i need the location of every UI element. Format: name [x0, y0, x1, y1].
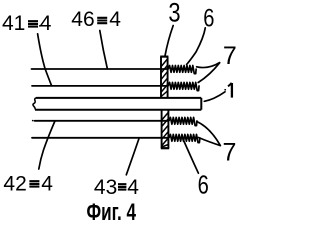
svg-text:7: 7 — [223, 42, 237, 70]
svg-text:42: 42 — [3, 173, 26, 196]
svg-text:4: 4 — [109, 8, 121, 31]
svg-text:43: 43 — [94, 176, 117, 199]
svg-text:7: 7 — [223, 139, 237, 167]
svg-text:Фиг. 4: Фиг. 4 — [87, 199, 137, 226]
svg-text:6: 6 — [203, 4, 214, 32]
svg-text:6: 6 — [198, 170, 209, 200]
svg-text:46: 46 — [71, 8, 94, 31]
svg-text:4: 4 — [127, 176, 139, 199]
svg-text:41: 41 — [2, 12, 25, 35]
svg-text:4: 4 — [41, 173, 53, 196]
svg-text:3: 3 — [168, 0, 180, 28]
svg-text:4: 4 — [40, 12, 52, 35]
